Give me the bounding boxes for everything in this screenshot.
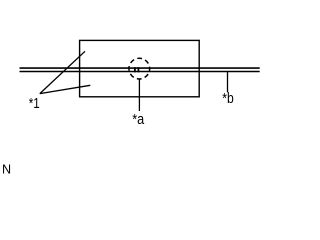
splice joint ticks inside circle: [135, 67, 139, 72]
svg-text:*a: *a: [132, 112, 145, 128]
leader line to label *b: [227, 72, 229, 92]
wire W (twin parallel line): [20, 68, 260, 71]
leader line 1 to label *1 (steep): [40, 51, 85, 93]
leader line 2 to label *1 (shallow): [40, 85, 91, 93]
svg-text:*b: *b: [222, 91, 234, 107]
component box (wire harness protector): [80, 40, 200, 96]
leader line to label *a: [138, 79, 140, 112]
dashed circle (repair point): [129, 58, 150, 79]
svg-text:N: N: [2, 163, 11, 177]
svg-text:*1: *1: [29, 95, 40, 112]
